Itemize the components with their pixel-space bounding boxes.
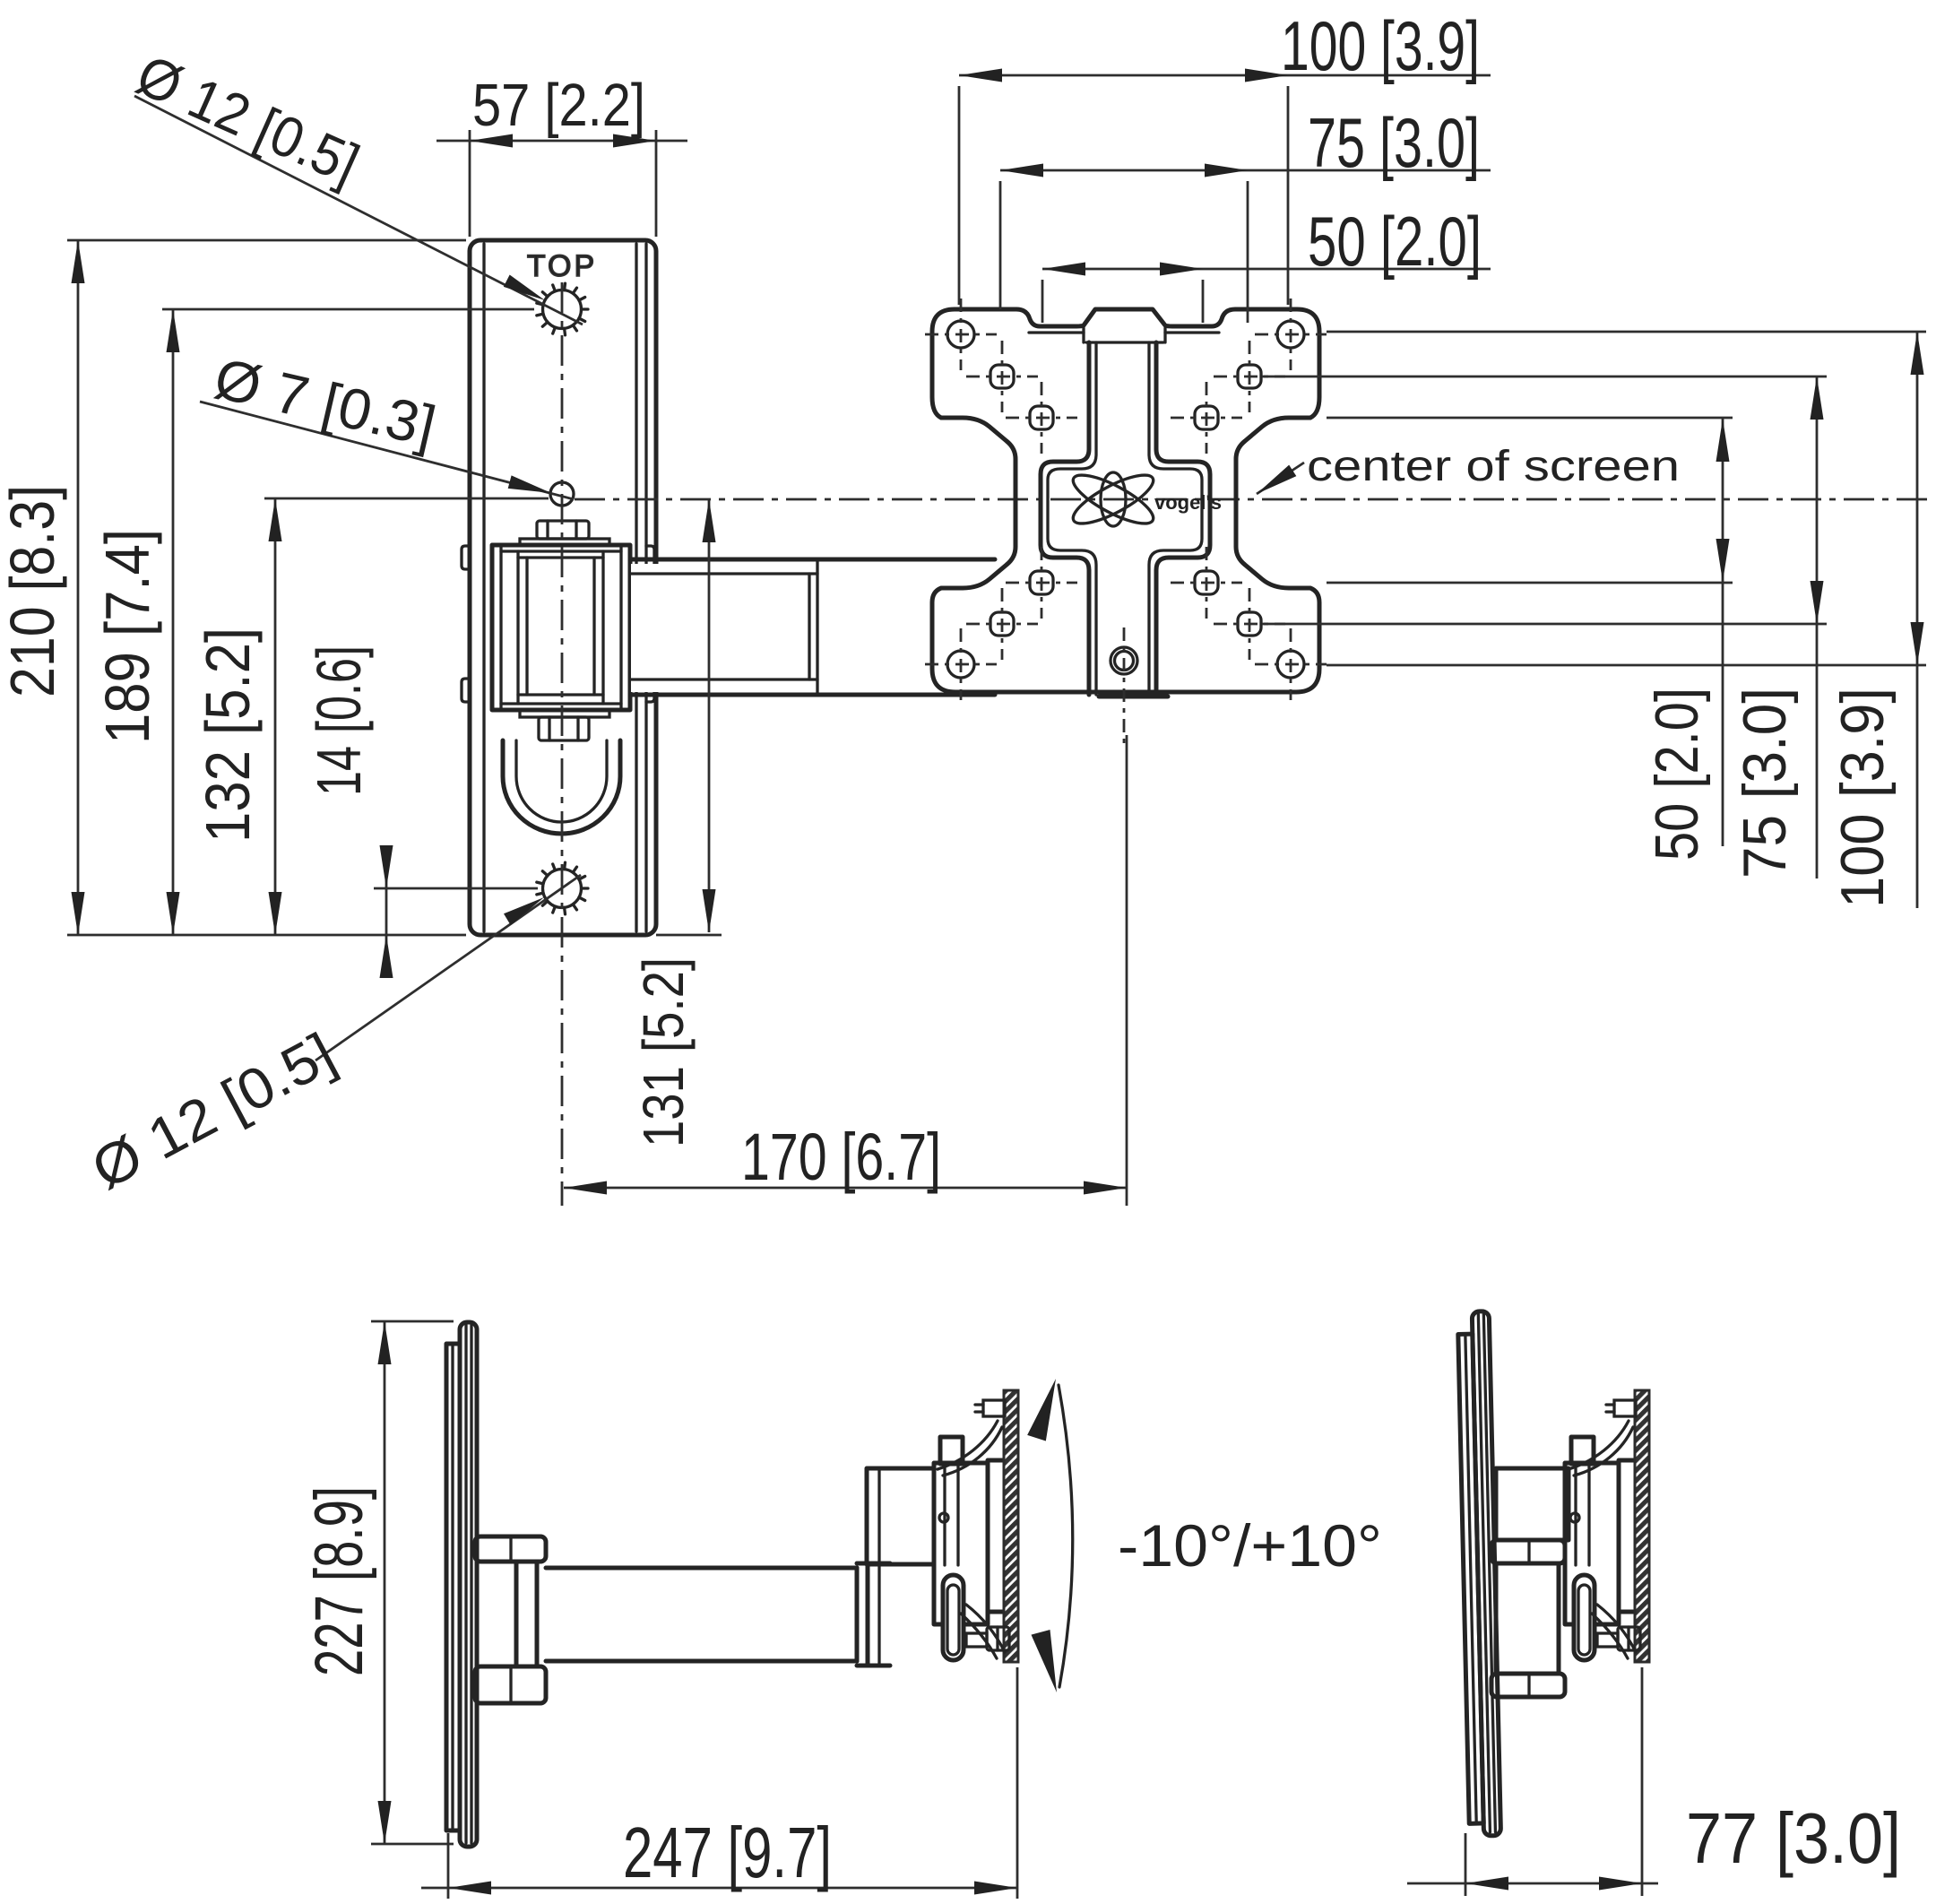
svg-text:TOP: TOP [527,249,597,283]
svg-text:50 [2.0]: 50 [2.0] [1308,202,1482,281]
svg-text:14 [0.6]: 14 [0.6] [304,645,374,796]
svg-text:center of screen: center of screen [1307,443,1680,490]
svg-text:132 [5.2]: 132 [5.2] [193,627,263,843]
svg-text:vogel's: vogel's [1154,491,1222,514]
svg-text:210 [8.3]: 210 [8.3] [0,485,67,697]
svg-text:-10°/+10°: -10°/+10° [1118,1512,1382,1579]
svg-text:100 [3.9]: 100 [3.9] [1828,688,1897,908]
svg-text:131 [5.2]: 131 [5.2] [631,957,696,1147]
svg-text:247 [9.7]: 247 [9.7] [623,1813,832,1892]
svg-text:75 [3.0]: 75 [3.0] [1308,103,1480,182]
svg-text:170 [6.7]: 170 [6.7] [741,1120,941,1194]
svg-text:77 [3.0]: 77 [3.0] [1686,1798,1901,1878]
svg-text:75 [3.0]: 75 [3.0] [1731,688,1799,878]
svg-text:227 [8.9]: 227 [8.9] [301,1486,377,1676]
svg-text:50 [2.0]: 50 [2.0] [1643,688,1711,861]
svg-text:57 [2.2]: 57 [2.2] [472,72,645,139]
svg-text:189 [7.4]: 189 [7.4] [92,529,162,744]
svg-text:100 [3.9]: 100 [3.9] [1281,6,1480,85]
